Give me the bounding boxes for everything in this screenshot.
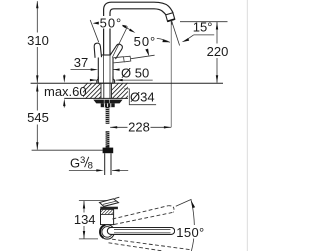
lever axis line right	[112, 27, 127, 58]
bottom view ext line bottom	[79, 238, 98, 240]
220 arrow top	[216, 22, 218, 30]
hex cap	[103, 148, 114, 154]
svg-text:310: 310	[27, 33, 49, 48]
svg-text:Ø34: Ø34	[130, 90, 155, 105]
tube inner line bottom	[114, 232, 171, 234]
angle 50 second down arrowhead	[145, 49, 149, 57]
aerator outlet face	[168, 19, 175, 21]
faucet body housing	[98, 55, 113, 83]
vertical reference line	[170, 21, 172, 128]
dim line 310	[36, 1, 38, 83]
svg-text:G: G	[70, 156, 80, 171]
545 arrow up	[36, 84, 38, 92]
swivel pivot circles	[100, 225, 114, 239]
body hatch band	[98, 209, 117, 215]
countertop deck line	[31, 82, 223, 84]
threaded stud upper	[106, 107, 110, 124]
lever blade inner line	[103, 201, 116, 204]
spout pipe outline	[104, 2, 174, 55]
lever horizontal axis line	[131, 55, 155, 59]
O34 leader box	[124, 89, 156, 105]
O50 arrow left	[90, 79, 97, 81]
label 50 deg first background	[99, 16, 123, 29]
lever blade side view	[100, 199, 119, 207]
body mid line	[101, 214, 114, 216]
svg-text:545: 545	[27, 110, 49, 125]
dashed swivel position upper	[113, 206, 174, 225]
label 150 deg background	[175, 225, 205, 239]
15 deg underline	[194, 34, 215, 36]
svg-text:3: 3	[80, 155, 85, 166]
pipe lines into body	[104, 56, 110, 83]
dim 37 line	[71, 69, 92, 71]
dim line 545 upper part	[36, 84, 38, 149]
max60 up arrow	[63, 104, 65, 108]
counter hatch left	[72, 83, 114, 99]
angle 50 second arc to vertical line	[157, 38, 170, 42]
svg-text:37: 37	[74, 55, 88, 70]
connection pipe G3/8	[105, 153, 111, 175]
lever axis line left	[90, 20, 99, 42]
angle 50 first leader tail	[126, 27, 130, 29]
pivot circle heavy lower-left arc	[100, 225, 105, 238]
aerator head	[166, 13, 175, 22]
dim line 220	[216, 22, 218, 83]
svg-text:220: 220	[207, 44, 229, 59]
dashed swivel position lower	[109, 239, 191, 251]
lever base black band	[100, 207, 118, 210]
37 arrow left-pointing with tail	[113, 69, 119, 71]
lever upright	[94, 43, 102, 58]
G3/8 underline and arrows	[69, 169, 97, 171]
svg-text:150°: 150°	[176, 225, 204, 240]
310 arrow top	[36, 1, 38, 9]
tube inner line top	[114, 228, 171, 230]
counter hatch right	[103, 83, 141, 99]
deck hole edges	[101, 83, 112, 98]
220 arrow bottom	[216, 75, 218, 83]
545 arrow down	[36, 142, 38, 150]
bottom view ext line top	[79, 200, 111, 202]
page divider line right edge	[246, 0, 248, 251]
310 arrow bottom	[36, 75, 38, 83]
lever horizontal thin outline	[113, 56, 131, 63]
228 arrow left	[110, 126, 117, 128]
dim O50 line and underline	[92, 79, 97, 81]
faucet base flare	[97, 77, 115, 84]
134 arrow down	[83, 231, 85, 239]
O50 arrow right	[116, 79, 123, 81]
228 arrow right	[164, 126, 171, 128]
svg-text:max.60: max.60	[44, 84, 87, 99]
swivel arc 150	[191, 200, 194, 251]
lever tilted	[110, 43, 124, 59]
angle 50 first arrowhead right	[120, 24, 127, 28]
angle 50 second arc arrowhead	[162, 40, 170, 43]
top extension line for 220	[180, 21, 228, 23]
counter bottom line	[64, 97, 128, 99]
stream direction line	[172, 21, 180, 46]
37 arrow right	[91, 68, 99, 70]
spout tube side view	[107, 228, 174, 235]
threaded stud lower	[106, 131, 110, 147]
outlet junction wedge	[171, 22, 173, 26]
mounting nut	[101, 103, 115, 107]
arrowhead toward second 50 label	[129, 29, 135, 33]
svg-text:50°: 50°	[134, 34, 157, 49]
15 deg leader	[187, 35, 194, 40]
svg-text:Ø 50: Ø 50	[121, 66, 149, 81]
bottom view body	[101, 209, 114, 224]
lever tip line	[115, 197, 120, 198]
max60 down arrow	[63, 75, 65, 79]
svg-text:8: 8	[88, 160, 93, 171]
swivel arc leader from dashed spout end	[176, 199, 192, 206]
dim 134 line	[83, 201, 85, 239]
dim 228 line	[110, 126, 171, 128]
svg-text:228: 228	[128, 120, 150, 135]
hose end reference line	[32, 149, 103, 151]
134 arrow up	[83, 201, 85, 209]
swivel arc arrowhead top	[191, 200, 195, 208]
svg-text:50°: 50°	[100, 15, 123, 30]
angle 50 first arrowhead left	[93, 21, 101, 25]
shank through counter	[104, 83, 110, 99]
15 deg leader arrowhead	[182, 38, 190, 42]
washer plate under counter	[93, 100, 122, 104]
svg-text:134: 134	[74, 212, 96, 227]
